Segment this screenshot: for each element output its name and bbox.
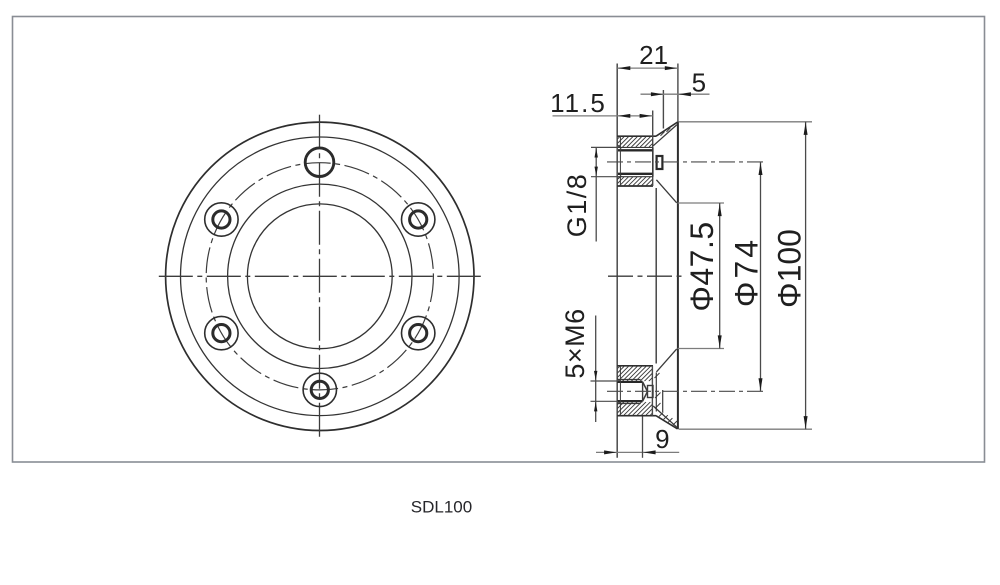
M6 hole at 150 deg	[205, 203, 238, 236]
M6 hole at 210 deg	[205, 316, 238, 349]
front view: flange face	[159, 115, 482, 438]
bottom cone sliver hatch ticks	[659, 412, 663, 416]
rim left corner edge / extension for dim 5	[662, 90, 664, 129]
rim front face line phi100 + extension up	[677, 64, 679, 123]
side section view	[550, 40, 812, 458]
hub top edge	[617, 135, 656, 137]
dimension phi74 (bolt circle)	[760, 162, 762, 391]
step edge line (middle)	[655, 188, 657, 364]
side view main centerline	[608, 275, 686, 277]
horizontal centerline	[159, 275, 482, 277]
M6 hole at 30 deg	[402, 203, 435, 236]
front recess cone edge (top)	[656, 180, 676, 203]
vertical centerline	[319, 115, 321, 438]
bolt circle phi74 (centerline)	[206, 163, 433, 390]
M6 thread crest lines	[617, 378, 640, 380]
label G1/8 with size dimension	[591, 146, 618, 148]
svg-text:SDL100: SDL100	[411, 498, 472, 517]
hub bottom outer edge	[617, 415, 656, 417]
dimension 9 (M6 depth)	[596, 451, 679, 453]
outer circle phi100	[166, 122, 474, 430]
dimension phi100 (outer dia)	[679, 121, 813, 123]
M6 bore walls	[617, 381, 642, 383]
cone outer surface (bottom)	[656, 416, 678, 429]
left face line + extension for dims 21 and 9	[616, 64, 618, 458]
svg-text:Φ100: Φ100	[772, 229, 808, 308]
M6 hole at 270 deg	[303, 373, 336, 406]
svg-text:5×M6: 5×M6	[560, 308, 590, 378]
hub circle	[180, 137, 459, 416]
front recess cone edge (bottom)	[656, 349, 676, 372]
M6 entry chamfer	[617, 378, 621, 382]
M6 hole at 330 deg	[402, 316, 435, 349]
M6 drill point	[643, 382, 648, 401]
svg-text:9: 9	[655, 424, 669, 454]
top port axis centerline / phi74 extension	[607, 161, 765, 163]
cone outer surface (top)	[656, 122, 678, 136]
label 5xM6 with size dimension	[591, 380, 619, 382]
top block right edge + ext for 11.5	[652, 111, 654, 187]
svg-text:21: 21	[639, 40, 668, 70]
cone inner surface (bottom)	[653, 406, 677, 427]
G1/8 relief pocket	[657, 156, 663, 169]
G1/8 bore end	[652, 147, 654, 176]
dimension 5 (rim thickness)	[641, 93, 710, 95]
bottom block right edge	[651, 366, 653, 416]
drawing frame border	[13, 17, 985, 463]
svg-text:5: 5	[692, 68, 706, 98]
top cone sliver hatch ticks	[661, 132, 665, 136]
G1/8 bore walls	[618, 149, 653, 151]
bore circle phi47.5	[247, 204, 392, 349]
dimension phi47.5 (bore)	[678, 202, 725, 204]
port entry double line (bottom block)	[619, 366, 621, 416]
svg-text:Φ47.5: Φ47.5	[684, 221, 720, 311]
hub inner edge (top block bottom)	[617, 185, 653, 187]
recess circle	[228, 184, 412, 368]
G1/8 port hole (top)	[305, 148, 334, 177]
port entry double line (top block)	[619, 136, 621, 186]
svg-text:G1/8: G1/8	[562, 173, 592, 238]
dimension 21 (overall width)	[617, 67, 678, 69]
dimension 11.5 (hub depth)	[553, 115, 653, 117]
svg-text:11.5: 11.5	[550, 88, 607, 118]
bottom block top edge	[617, 365, 653, 367]
cone inner surface (top)	[653, 125, 677, 146]
G1/8 entry chamfer	[617, 145, 621, 149]
G1/8 thread crest lines	[618, 146, 653, 148]
bottom relief verticals and ticks	[655, 373, 657, 412]
thread end detail	[648, 386, 654, 398]
bottom port axis centerline / phi74 extension	[607, 390, 765, 392]
svg-text:Φ74: Φ74	[729, 237, 765, 307]
